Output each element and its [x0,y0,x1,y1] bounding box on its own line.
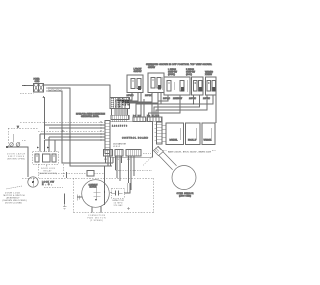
pin strip P2 [148,117,163,121]
svg-text:CONTROL BOARD: CONTROL BOARD [122,137,148,140]
wire from relay to lock motor [37,164,39,178]
wire L1 to right [44,85,111,98]
element HE3 warm element [202,123,215,145]
wires board bottom to motor area [105,156,107,163]
svg-text:370 VAC: 370 VAC [114,204,124,207]
switch SW1 left front surface unit [127,75,143,93]
switch SW3 dual element switch [164,77,190,95]
svg-text:SEE INSTALL INSTR.: SEE INSTALL INSTR. [81,115,99,118]
label under motor [88,215,107,222]
console dashed enclosure [8,128,38,147]
dashed jog to sensor [143,153,151,155]
label door lock assembly [3,193,27,205]
junction dots on cord [46,84,48,92]
motor enclosure dashed [22,177,154,179]
junction dot [6,146,8,148]
label capacitor [112,199,125,207]
convection motor M1 [82,166,110,207]
wire stub [66,172,68,178]
label latch switch [7,153,26,161]
wire down from connector [44,97,46,139]
svg-text:(SHOWN OPEN): (SHOWN OPEN) [7,159,25,161]
oven sensor RTD probe [154,146,197,189]
svg-text:ZONE SW: ZONE SW [205,74,212,76]
svg-text:BAKE EL: BAKE EL [170,139,179,142]
legend text grid [111,98,130,109]
board inner labels [113,143,127,149]
svg-text:1 4 6: 1 4 6 [127,159,132,161]
svg-text:BROIL E: BROIL E [188,140,197,142]
wires motor bottom [92,207,101,213]
control board U1 [110,122,153,158]
wire wavy to text [6,186,22,189]
connector TB1 power cord terminal block [34,84,44,93]
svg-text:SURF SW: SURF SW [134,71,142,73]
svg-text:CORD: CORD [35,81,41,83]
svg-text:240 VAC: 240 VAC [145,94,153,97]
ground mark [127,207,130,210]
svg-text:(2 SPEED): (2 SPEED) [90,220,103,222]
door latch switch wire [7,147,29,177]
svg-text:SWITCHES SHOWN IN OFF POSITION: SWITCHES SHOWN IN OFF POSITION. TOP VIEW… [146,64,212,66]
bus wires L1 L2 N [20,121,105,123]
pin numbers [104,159,132,161]
connector legend box P4 P5 pin chart [110,98,130,109]
board bottom pin group P7 [115,150,123,157]
svg-text:2200/1000W: 2200/1000W [173,98,182,100]
ground symbol left [63,204,67,209]
thermal fuse in dashed run [40,173,87,175]
element HE2 broil element [186,123,201,145]
svg-text:N.O.: N.O. [42,184,52,186]
svg-text:1 4 1: 1 4 1 [104,159,109,161]
svg-text:1 3: 1 3 [116,159,120,161]
wires from SW3 SW4 SW5 staircase to element connector [158,95,168,117]
svg-text:BAKE 2400W - BROIL 3600W - WAR: BAKE 2400W - BROIL 3600W - WARM 100W [168,150,211,153]
bus junction dots [100,121,102,141]
arrow marks [37,147,39,149]
element connector P2a vertical strip [155,122,163,144]
svg-text:SURF SW: SURF SW [148,67,155,69]
motor stub left [77,196,82,198]
svg-text:(SGL): (SGL) [186,74,192,76]
svg-text:1 2 3 4 5 6 7 8: 1 2 3 4 5 6 7 8 [112,126,127,128]
wires connector to element HE1 [162,125,166,141]
svg-text:P4 5 OR: P4 5 OR [111,105,121,108]
board bottom pin group P6 [104,150,113,157]
lock motor M2 [28,177,38,187]
junction dots left bus [62,130,71,138]
svg-text:(DUAL): (DUAL) [168,73,175,76]
dashed oven boundary diagonal [143,156,153,166]
wire drops to relay box [39,134,41,152]
wire dashed neutral [20,92,34,94]
svg-text:WARM EL: WARM EL [204,139,213,142]
board bottom pin group P8 [126,150,141,157]
arrowhead [42,96,44,98]
svg-text:W: W [17,126,19,128]
capacitor C1 dashed box [112,188,125,198]
switch SW5 warming zone [206,77,217,95]
switch SW2 right front surface unit [148,73,164,93]
svg-text:240 VAC: 240 VAC [189,97,197,100]
wire motor to capacitor [110,192,113,194]
relay K1 dashed box [33,152,59,165]
arrow mark [24,85,26,87]
svg-text:DOOR CLOSED: DOOR CLOSED [5,203,23,205]
svg-text:240 VAC: 240 VAC [163,97,171,100]
dashed console right edge [62,164,64,178]
wavy wire texture [48,89,62,90]
svg-text:(1080 OHM): (1080 OHM) [179,196,191,198]
board left pin strip P3 [105,121,110,154]
svg-text:P5 4 TN: P5 4 TN [122,103,130,106]
label relay K1 [39,166,57,175]
svg-text:L1 N L2: L1 N L2 [113,146,121,148]
svg-text:(SHOWN LOCKED): (SHOWN LOCKED) [39,173,57,175]
svg-text:MOTOR: MOTOR [90,187,98,189]
pin strip P1 [133,117,146,121]
wire to x70 [48,88,112,166]
wire left of connector [22,85,34,87]
wire to ground [64,194,66,205]
element HE1 bake element [166,123,184,145]
connector funnel body [112,109,128,116]
wires from SW1 SW2 down to connector P4 [116,93,132,116]
pin strip P4 on board top [111,115,129,122]
latch switch contacts [10,143,14,147]
switch SW4 [192,77,204,95]
wire to x62 [48,91,113,163]
svg-text:240 VAC: 240 VAC [127,94,135,97]
